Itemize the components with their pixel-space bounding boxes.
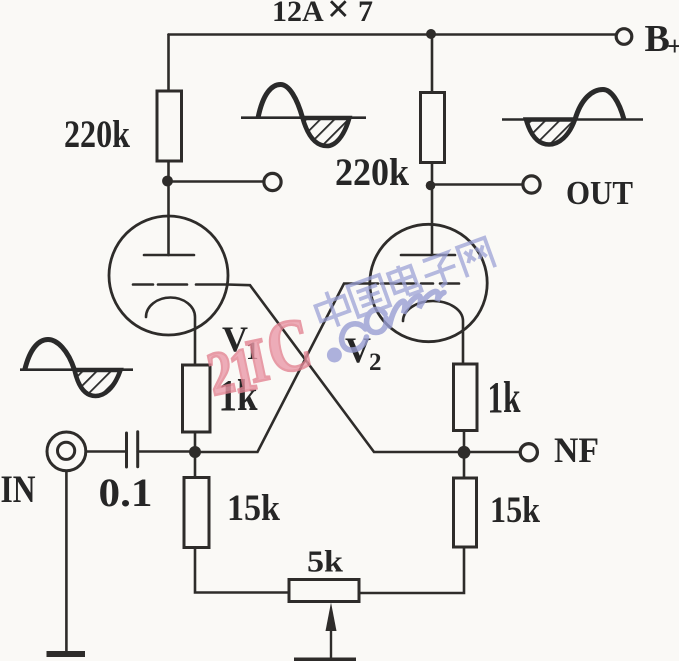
- svg-text:5k: 5k: [307, 544, 344, 579]
- svg-text:+: +: [667, 31, 679, 61]
- svg-text:15k: 15k: [490, 490, 540, 531]
- svg-text:7: 7: [358, 0, 373, 28]
- svg-text:220k: 220k: [335, 151, 409, 194]
- svg-text:220k: 220k: [64, 113, 130, 156]
- svg-text:0.1: 0.1: [99, 470, 153, 515]
- svg-text:1k: 1k: [488, 373, 521, 422]
- svg-text:2: 2: [369, 349, 382, 376]
- svg-text:×: ×: [327, 0, 350, 31]
- svg-text:IN: IN: [1, 468, 36, 511]
- svg-text:OUT: OUT: [566, 175, 633, 212]
- svg-text:NF: NF: [554, 430, 599, 470]
- svg-text:12A: 12A: [272, 0, 324, 28]
- svg-text:15k: 15k: [227, 488, 280, 529]
